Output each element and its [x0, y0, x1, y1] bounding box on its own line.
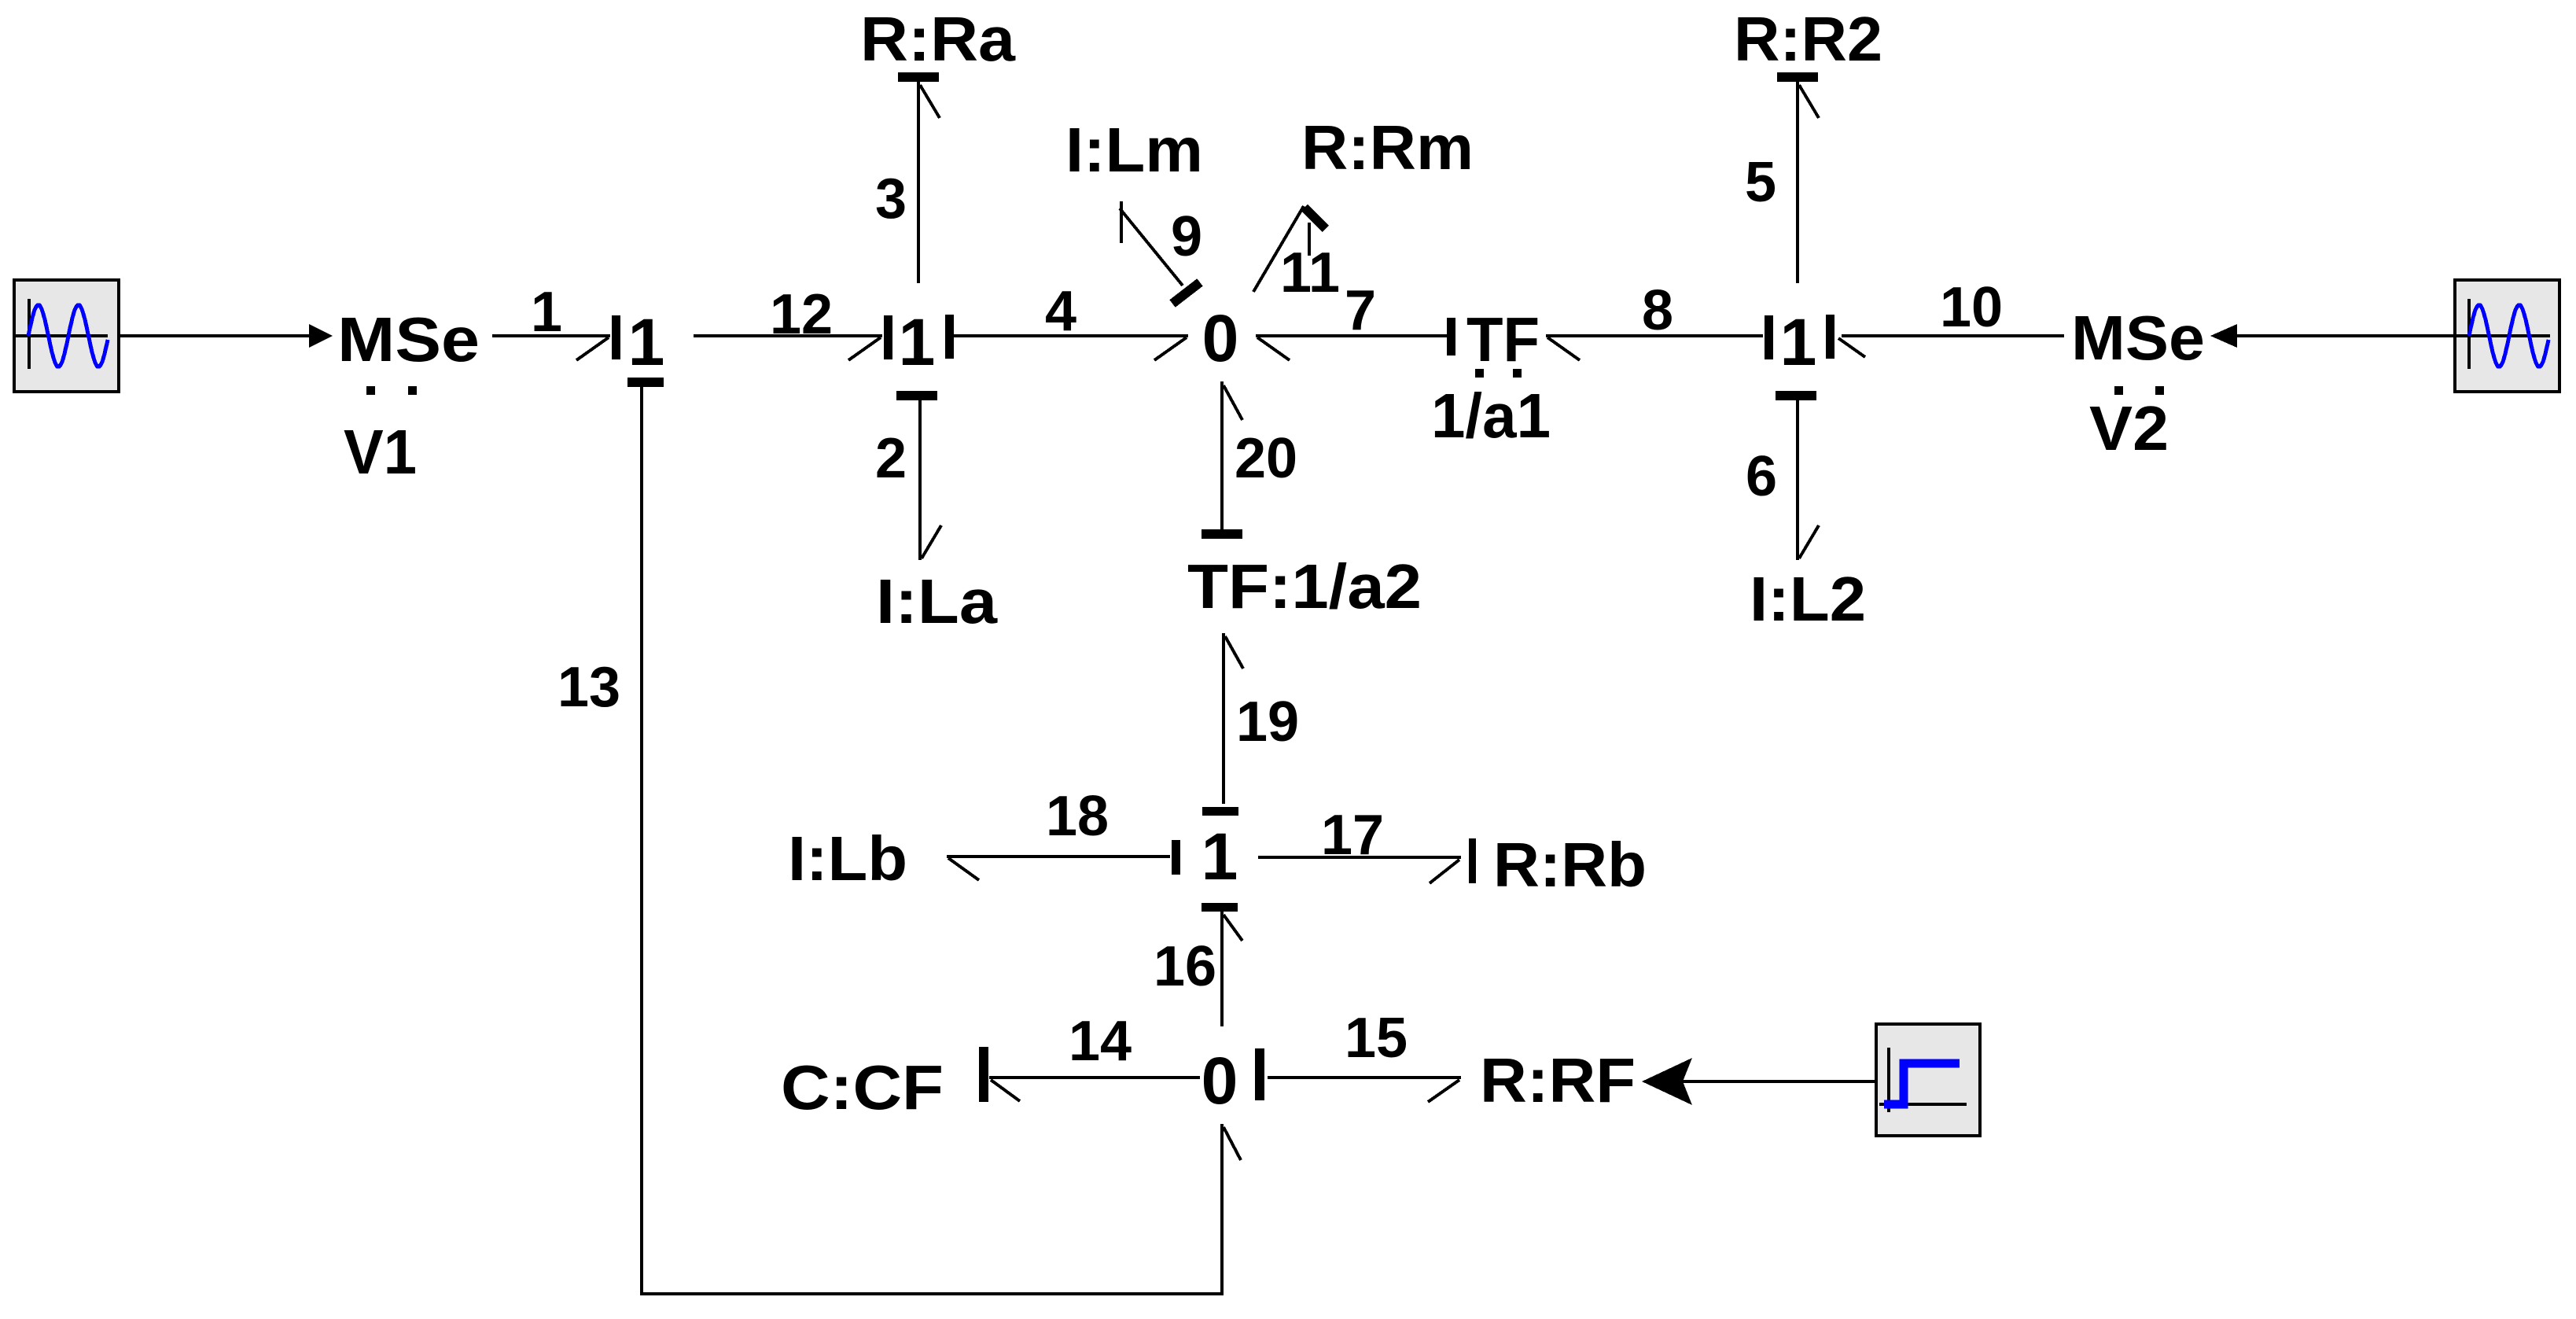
wire V1 box to MSe: [119, 334, 311, 337]
bond 20 line: [1220, 381, 1224, 529]
svg-text:I:Lb: I:Lb: [788, 823, 907, 893]
bond 10 causal stroke at J3: [1826, 315, 1834, 359]
svg-text:MSe: MSe: [337, 304, 480, 374]
svg-text:12: 12: [770, 283, 833, 346]
svg-text:3: 3: [875, 168, 907, 230]
bond 2 half-arrow: [922, 525, 941, 558]
bond 6 half-arrow: [1799, 525, 1819, 558]
svg-text:1: 1: [628, 305, 665, 379]
bond 6 line: [1796, 400, 1799, 560]
bond 4 line: [954, 334, 1188, 337]
bond 17 half-arrow: [1430, 860, 1459, 883]
bond 19 line: [1222, 633, 1225, 804]
step source icon: [1876, 1024, 1980, 1136]
bond 2 causal stroke: [896, 391, 937, 400]
bond 5 half-arrow: [1799, 85, 1819, 118]
bond 10 line: [1842, 334, 2064, 337]
bond 15 line: [1268, 1076, 1461, 1079]
bond 4 half-arrow: [1154, 337, 1187, 360]
svg-text:I:L2: I:L2: [1750, 564, 1866, 634]
svg-text:9: 9: [1171, 205, 1202, 268]
bond 18 line: [947, 855, 1170, 858]
bond 17 causal stroke: [1469, 838, 1476, 883]
bond 20 causal stroke: [1202, 529, 1242, 539]
bond 18 causal stroke: [1172, 840, 1180, 875]
svg-text:20: 20: [1235, 427, 1297, 490]
svg-text:R:RF: R:RF: [1480, 1045, 1636, 1115]
bond 3 half-arrow: [920, 85, 940, 118]
svg-text:C:CF: C:CF: [781, 1052, 944, 1122]
bond 12 line: [694, 334, 882, 337]
svg-text:R:Ra: R:Ra: [860, 4, 1016, 74]
svg-text:15: 15: [1345, 1007, 1408, 1070]
bond 16 line: [1220, 911, 1224, 1026]
svg-text:18: 18: [1046, 785, 1109, 848]
bond 6 causal stroke: [1776, 391, 1816, 400]
svg-text:1: 1: [531, 281, 562, 344]
arrowhead into right MSe: [2210, 324, 2237, 348]
bond 20 half-arrow: [1224, 385, 1242, 420]
svg-text:16: 16: [1154, 935, 1216, 998]
svg-text:4: 4: [1045, 280, 1076, 343]
bond 9 causal stroke: [1172, 282, 1200, 304]
bond 11 half-arrow: [1308, 223, 1311, 256]
svg-text:10: 10: [1940, 276, 2003, 339]
arrowhead into MSe: [309, 324, 333, 348]
bond 12 half-arrow: [848, 337, 881, 360]
bond 13 right vertical wire: [1220, 1124, 1224, 1295]
bond 15 causal stroke at J0b: [1255, 1048, 1264, 1100]
bond 8 causal stroke at J3: [1765, 315, 1773, 359]
bond 14 half-arrow: [991, 1080, 1020, 1101]
svg-text:0: 0: [1202, 1044, 1238, 1118]
svg-text:MSe: MSe: [2071, 303, 2205, 373]
svg-text:1: 1: [1780, 305, 1817, 379]
svg-text:14: 14: [1069, 1010, 1132, 1073]
bond 11 causal stroke: [1305, 208, 1326, 229]
bond 10 half-arrow: [1838, 338, 1865, 357]
bond 9 line: [1120, 208, 1183, 286]
bond 17 line: [1258, 856, 1461, 859]
bond 7 causal stroke at TF: [1447, 318, 1455, 356]
arrowhead into R:RF: [1642, 1058, 1692, 1105]
bond 13 causal stroke at J1: [627, 378, 664, 387]
svg-text:11: 11: [1280, 241, 1340, 304]
svg-text:V1: V1: [344, 417, 417, 487]
svg-text:1: 1: [899, 305, 936, 379]
svg-text:19: 19: [1236, 691, 1299, 753]
svg-text:13: 13: [558, 656, 620, 719]
bond 1 causal stroke: [612, 315, 620, 359]
bond 8 half-arrow: [1547, 337, 1580, 360]
bond 4 causal stroke at J2: [945, 315, 954, 359]
signal generator icon V1: [14, 280, 119, 392]
bond 13 half-arrow: [1224, 1127, 1241, 1160]
bond 1 half-arrow: [576, 337, 609, 360]
bond 5 causal stroke: [1777, 72, 1818, 82]
svg-text:6: 6: [1746, 445, 1777, 508]
bond 16 half-arrow: [1224, 915, 1242, 941]
svg-text:I:Lm: I:Lm: [1065, 115, 1203, 185]
svg-text:R:Rb: R:Rb: [1493, 830, 1647, 900]
bond 5 line: [1796, 82, 1799, 283]
bond 16 causal stroke: [1202, 903, 1238, 912]
bond 14 line: [989, 1076, 1200, 1079]
bond 2 line: [918, 400, 922, 560]
wire right MSe to V2 box: [2236, 334, 2455, 337]
bond 11 line: [1253, 206, 1304, 292]
bond 3 line: [917, 82, 920, 283]
svg-text:8: 8: [1642, 279, 1673, 342]
svg-text:I:La: I:La: [876, 566, 998, 636]
svg-text:1/a1: 1/a1: [1431, 381, 1551, 451]
bond 7 line: [1256, 334, 1447, 337]
svg-text:TF:1/a2: TF:1/a2: [1187, 551, 1422, 621]
bond 7 half-arrow: [1257, 337, 1290, 360]
svg-text:2: 2: [875, 427, 907, 490]
bond 12 causal stroke: [884, 315, 892, 359]
svg-text:TF: TF: [1466, 304, 1540, 374]
bond 15 half-arrow: [1428, 1080, 1459, 1102]
bond 19 causal stroke: [1202, 807, 1238, 816]
bond 13 bottom wire: [640, 1292, 1224, 1295]
wire step box to R:RF: [1683, 1080, 1876, 1083]
bond 19 half-arrow: [1225, 636, 1243, 669]
bond 1 line: [492, 334, 610, 337]
svg-text:7: 7: [1345, 279, 1376, 342]
svg-text:1: 1: [1202, 820, 1238, 893]
bond 9 half-arrow: [1120, 201, 1123, 243]
bond 18 half-arrow: [948, 858, 979, 880]
bond 13 left vertical wire: [640, 387, 643, 1294]
bond 14 causal stroke: [979, 1047, 988, 1102]
svg-text:R:Rm: R:Rm: [1301, 112, 1474, 182]
svg-text:R:R2: R:R2: [1734, 4, 1882, 74]
svg-text:V2: V2: [2089, 393, 2169, 463]
svg-text:0: 0: [1202, 301, 1239, 375]
bond 8 line: [1546, 334, 1763, 337]
svg-text:5: 5: [1745, 151, 1776, 214]
signal generator icon V2: [2455, 280, 2559, 392]
bond 3 causal stroke: [898, 72, 939, 82]
svg-text:17: 17: [1321, 804, 1384, 867]
